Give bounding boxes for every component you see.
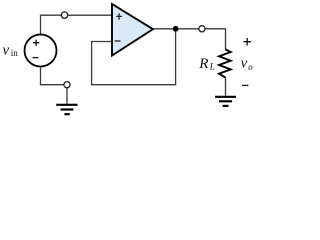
wire: source bottom stub [40,67,42,85]
wire: left terminal to ground stem [66,85,68,104]
svg-text:v: v [3,42,10,58]
wire: right vertical down to resistor top [225,29,227,50]
node: output junction dot [173,26,179,32]
label + (output polarity top) [243,38,251,46]
op-amp + input mark [116,13,122,20]
wire: source top stub [40,15,42,35]
wire: resistor bottom to right ground [225,77,227,95]
wire: output rail from op-amp apex to right corner [153,28,227,30]
svg-text:o: o [248,62,253,72]
svg-text:R: R [198,56,208,72]
op-amp U1 (triangle) [112,4,153,56]
ground (left, below source loop) [56,105,77,114]
svg-text:v: v [241,56,248,72]
voltage source - polarity mark [33,57,39,59]
wire: bottom-left rail from source to left terminal [40,84,67,86]
wire: feedback loop (left leg, bottom, right leg up to output node) [92,29,176,85]
op-amp - input mark [115,40,121,42]
node: open terminal on bottom-left rail [64,82,70,88]
wire: op-amp - input lead [92,41,112,43]
svg-text:L: L [209,62,215,72]
ground (right, below resistor) [215,97,236,106]
voltage source + polarity mark [33,40,39,46]
label - (output polarity bottom) [242,84,248,86]
wire: top rail from source top to op-amp + input [41,14,113,16]
voltage source Vin (circle) [25,35,57,67]
resistor RL (zigzag) [219,49,231,77]
svg-text:in: in [11,48,19,58]
node: open terminal on top rail [61,12,67,18]
node: open terminal on output rail [199,26,205,32]
